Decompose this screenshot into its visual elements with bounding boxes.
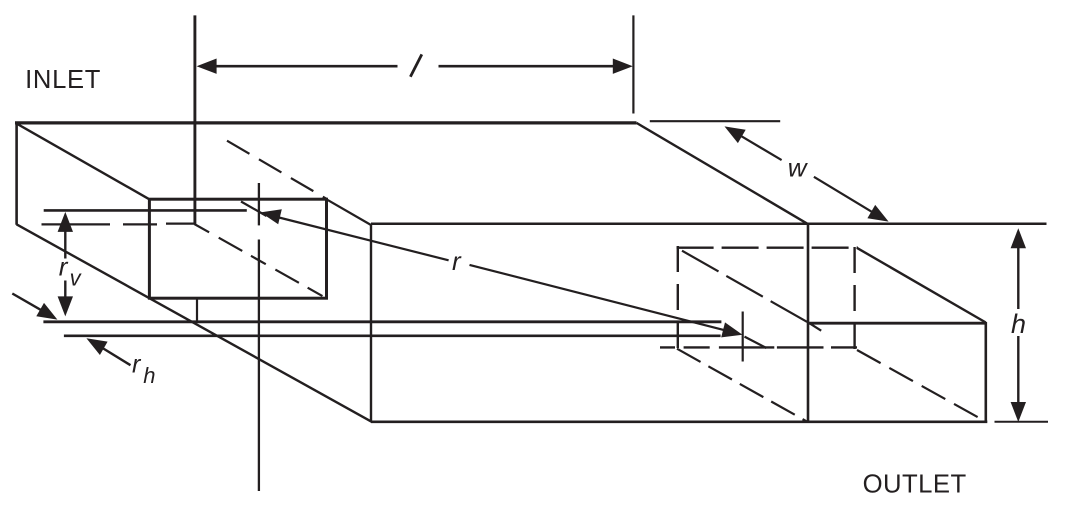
svg-text:r: r [59,251,69,281]
wire outlet duct hidden top-left receding edge [682,251,808,323]
wire outlet opening hidden rect bottom edge [660,346,858,348]
wire inlet duct top-left receding edge [17,124,149,199]
wire outlet opening hidden rect top edge [677,246,858,248]
svg-text:h: h [143,363,155,388]
wire plenum front-top edge with h extension [371,222,1047,225]
wire hidden bottom edge of inlet outer face dash1 [42,223,111,225]
wire inlet opening rectangle [149,199,326,298]
wire short segment at outlet face corner [808,322,821,330]
wire outlet centre oblique tick [745,337,767,348]
wire l dimension shaft left [214,65,398,68]
wire rv dimension shaft lower [64,281,66,300]
node rv dimension top arrowhead [58,212,73,232]
wire plenum front-bottom edge [371,420,987,423]
wire rv dimension shaft upper [64,226,66,259]
node r dimension left arrowhead [261,209,282,224]
wire inlet centre height line [44,209,247,212]
wire lower reference line left [43,320,721,323]
node rv dimension bottom arrowhead [58,296,73,316]
wire outlet centre height line [64,334,721,337]
wire inlet centre vertical lower [258,240,260,492]
node h dimension bottom arrowhead [1011,402,1026,422]
wire hidden diagonal from front corner to inlet opening corner [194,224,326,298]
svg-text:w: w [788,153,809,183]
wire long bottom-left receding diagonal [17,224,372,421]
wire l dimension right extension [632,15,634,113]
wire plenum front-right vertical edge [807,225,810,423]
wire outlet duct hidden bottom-right receding edge [857,350,984,420]
wire outlet opening hidden rect right edge [853,247,855,349]
node l dimension right arrowhead [613,59,633,74]
wire diagonal from inlet opening corner to front face [327,199,372,225]
wire l dimension left extension [193,15,196,224]
wire plenum front-left vertical edge [370,225,372,422]
wire inlet centre oblique tick [241,202,267,217]
wire outlet opening hidden rect left edge [677,246,679,354]
node upper slant pointer arrowhead [36,303,57,320]
svg-text:r: r [452,246,462,276]
wire short vertical below inlet [196,300,198,322]
wire hidden inlet duct top-right receding edge [227,141,327,199]
svg-text:OUTLET: OUTLET [863,471,967,499]
wire inlet centre vertical upper [258,183,260,225]
wire rh slant pointer shaft [97,345,131,366]
wire w dimension shaft upper [738,134,782,160]
wire upper slant pointer shaft [12,294,48,315]
wire hidden bottom edge of inlet outer face dash2 [123,223,157,225]
wire outlet duct top-right receding edge [857,248,986,323]
svg-text:h: h [1011,309,1026,339]
wire w dimension shaft lower [814,177,875,214]
wire l dimension shaft right [439,65,616,68]
wire left vertical edge of inlet duct outer face [15,122,18,225]
node w dimension top arrowhead [725,126,746,143]
wire h dimension shaft lower [1017,336,1019,406]
wire hidden bottom edge of inlet outer face dash3 [166,223,194,225]
svg-text:r: r [132,351,142,379]
wire outlet outer face right edge [984,322,987,422]
node rh slant pointer arrowhead [86,338,107,355]
wire w dimension extension [650,120,780,122]
wire back-top edge of plenum [15,121,637,124]
svg-text:v: v [70,265,83,290]
node h dimension top arrowhead [1011,228,1026,248]
wire h dimension shaft upper [1017,243,1019,309]
wire r dimension shaft right [470,265,727,331]
wire outlet centre vertical tick [742,312,744,362]
wire outlet duct hidden bottom-left receding edge [677,349,807,422]
wire outlet outer face top edge [808,322,986,325]
wire r dimension shaft left [277,217,449,260]
node l dimension label [410,54,421,76]
svg-text:INLET: INLET [25,66,101,94]
node l dimension left arrowhead [197,59,217,74]
wire bottom h extension line [995,421,1049,423]
wire top face right receding edge [637,123,808,224]
node w dimension bottom arrowhead [867,205,888,222]
node r dimension right arrowhead [721,322,742,337]
